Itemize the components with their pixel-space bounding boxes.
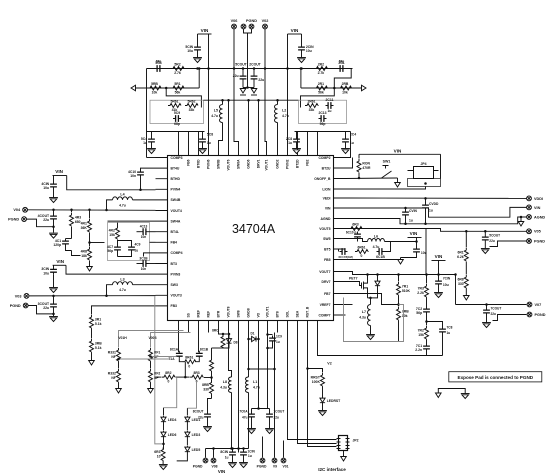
wire VOUT4 rail to terminal V04 bbox=[28, 209, 156, 212]
svg-text:VIN: VIN bbox=[56, 259, 64, 264]
capacitor 1C9 1u bbox=[268, 334, 273, 336]
svg-text:15k: 15k bbox=[418, 333, 424, 337]
wire VIN row to VIN terminal bbox=[346, 207, 527, 217]
LED 5LED4 bbox=[163, 408, 165, 415]
svg-text:L3: L3 bbox=[120, 278, 124, 282]
wire PGND pair join bbox=[244, 29, 252, 33]
arrow down FB3 divider bbox=[89, 361, 95, 366]
svg-text:1u: 1u bbox=[248, 454, 252, 458]
resistor 6R3 0 bbox=[349, 227, 362, 231]
capacitor 7COUT 22u bbox=[486, 305, 488, 308]
svg-text:2.7k: 2.7k bbox=[318, 71, 325, 75]
svg-text:SW4B: SW4B bbox=[171, 198, 181, 202]
wire comp caps row left bbox=[147, 131, 205, 133]
gray tap V008 divider mid bbox=[151, 356, 177, 358]
svg-text:15k: 15k bbox=[109, 233, 115, 237]
inductor L7 4.3u bbox=[370, 298, 372, 305]
svg-text:2C4: 2C4 bbox=[350, 133, 356, 137]
wire FB5 row bbox=[346, 259, 401, 261]
svg-text:VOUT4: VOUT4 bbox=[171, 209, 182, 213]
ground below 2CIN bbox=[297, 57, 306, 59]
wire SW4A row bbox=[108, 220, 156, 222]
svg-text:SW4A: SW4A bbox=[171, 219, 181, 223]
arrow net output right bbox=[362, 85, 367, 91]
compensation box left bbox=[150, 100, 204, 123]
svg-text:1C9: 1C9 bbox=[276, 335, 282, 339]
inductor L3 4.7u bbox=[133, 284, 156, 286]
svg-text:1u: 1u bbox=[143, 141, 147, 145]
resistor 2R2 2.7k bbox=[314, 67, 327, 71]
svg-text:4.7u: 4.7u bbox=[119, 288, 126, 292]
svg-text:D8: D8 bbox=[234, 341, 238, 345]
wire V07 rail bbox=[456, 304, 527, 306]
svg-text:PGND: PGND bbox=[246, 19, 257, 23]
svg-text:V08: V08 bbox=[211, 464, 217, 468]
resistor 8R3 0 bbox=[190, 375, 203, 379]
svg-text:1u: 1u bbox=[328, 109, 332, 113]
capacitor 2C1 68p bbox=[338, 68, 346, 70]
svg-text:VOUT6: VOUT6 bbox=[227, 159, 231, 170]
svg-text:2R2: 2R2 bbox=[318, 62, 324, 66]
svg-text:L2: L2 bbox=[282, 109, 286, 113]
terminal PGND pair top bbox=[241, 24, 246, 29]
wire JP2 ground drop bbox=[343, 451, 345, 457]
svg-text:7C8: 7C8 bbox=[447, 326, 453, 330]
svg-text:33k: 33k bbox=[189, 108, 195, 112]
svg-text:SW5: SW5 bbox=[323, 237, 330, 241]
svg-text:1u: 1u bbox=[288, 141, 292, 145]
resistor 8R61 0 bbox=[183, 360, 196, 364]
resistor RRST 100k bbox=[321, 373, 325, 386]
svg-text:1u: 1u bbox=[225, 456, 229, 460]
svg-text:SEA: SEA bbox=[296, 310, 300, 317]
terminal VDDI bbox=[527, 196, 532, 201]
diode zener D7 bbox=[377, 275, 379, 280]
svg-text:FB5: FB5 bbox=[324, 258, 331, 262]
svg-text:330: 330 bbox=[458, 282, 464, 286]
svg-text:5C8: 5C8 bbox=[207, 133, 213, 137]
svg-text:BT4L: BT4L bbox=[171, 230, 179, 234]
svg-text:SW6B: SW6B bbox=[217, 159, 221, 169]
wire bus right staircase down bbox=[334, 69, 351, 89]
LED 5LED1 bbox=[186, 408, 188, 415]
capacitor 4COUT 22u bbox=[53, 210, 55, 214]
svg-text:5COUT: 5COUT bbox=[235, 63, 247, 67]
svg-text:2RB: 2RB bbox=[342, 82, 349, 86]
wire rail B right to comp box bbox=[333, 87, 336, 90]
arrow net input left bbox=[131, 85, 136, 91]
svg-text:5C9: 5C9 bbox=[174, 111, 180, 115]
wire FB7 row to divider bbox=[346, 294, 399, 305]
gray feed wire to LED column 1 bottom bbox=[155, 296, 164, 444]
terminal AGND bbox=[527, 215, 532, 220]
svg-text:10: 10 bbox=[157, 454, 161, 458]
terminal V06 bbox=[232, 24, 237, 29]
resistor 2R61 33k bbox=[305, 104, 318, 108]
svg-text:0: 0 bbox=[188, 364, 190, 368]
svg-text:V06: V06 bbox=[231, 19, 238, 23]
svg-text:PGND: PGND bbox=[8, 218, 19, 222]
svg-text:L5: L5 bbox=[214, 109, 218, 113]
svg-text:VOUT8: VOUT8 bbox=[227, 306, 231, 317]
svg-text:I2C interface: I2C interface bbox=[318, 467, 346, 472]
resistor 8R2 0 bbox=[162, 375, 175, 379]
svg-text:V02: V02 bbox=[262, 19, 269, 23]
svg-text:L4: L4 bbox=[120, 193, 124, 197]
capacitor 7C2 56p bbox=[426, 307, 428, 315]
capacitor 7C8 1u bbox=[427, 322, 443, 327]
svg-text:VIN: VIN bbox=[55, 169, 63, 174]
svg-text:56p: 56p bbox=[416, 311, 422, 315]
svg-text:6R61: 6R61 bbox=[357, 245, 365, 249]
capacitor 5C8 1u bbox=[202, 132, 204, 137]
svg-text:56k: 56k bbox=[175, 91, 181, 95]
svg-text:FB7: FB7 bbox=[324, 292, 331, 296]
ground arrow at switch bbox=[397, 178, 399, 183]
wire VIN to PVIN4 row bbox=[67, 176, 156, 190]
svg-text:2.7k: 2.7k bbox=[174, 71, 181, 75]
svg-text:SW3: SW3 bbox=[171, 283, 178, 287]
svg-text:5R62: 5R62 bbox=[187, 99, 195, 103]
ground below 3COUT bbox=[49, 316, 58, 318]
jumper lower box bbox=[408, 179, 441, 187]
svg-text:18k: 18k bbox=[81, 254, 87, 258]
svg-text:68p: 68p bbox=[174, 122, 180, 126]
wire rail B to comp box left bbox=[165, 87, 168, 90]
wire VIN switch top rail bbox=[359, 153, 441, 155]
svg-text:L8: L8 bbox=[223, 380, 227, 384]
svg-text:AGND: AGND bbox=[534, 215, 545, 219]
gray return loop PET7 area bbox=[344, 298, 399, 342]
wire V01H feed bbox=[119, 331, 184, 348]
svg-text:V008: V008 bbox=[149, 336, 157, 340]
resistor 7R2 15k bbox=[425, 326, 429, 339]
svg-text:4.7u: 4.7u bbox=[211, 114, 218, 118]
regulator4 comp box bbox=[108, 223, 150, 261]
ground tie bracket below note bbox=[438, 389, 465, 394]
svg-text:LION: LION bbox=[322, 187, 331, 191]
terminal V05 bbox=[527, 229, 532, 234]
svg-text:6R3: 6R3 bbox=[352, 222, 358, 226]
svg-text:1u: 1u bbox=[429, 209, 433, 213]
svg-text:DRV1: DRV1 bbox=[257, 159, 261, 168]
svg-text:BT2U: BT2U bbox=[322, 166, 331, 170]
svg-text:4.7u: 4.7u bbox=[119, 203, 126, 207]
svg-text:1CIN: 1CIN bbox=[248, 450, 256, 454]
svg-text:2C13: 2C13 bbox=[318, 111, 326, 115]
terminal V08 bottom bbox=[213, 449, 215, 458]
LED 5LED6 bbox=[161, 431, 166, 439]
svg-text:VIN: VIN bbox=[435, 254, 443, 259]
svg-text:DRV7: DRV7 bbox=[322, 280, 331, 284]
wire V02 down to IC pin bbox=[265, 29, 267, 144]
svg-text:5.1k: 5.1k bbox=[95, 322, 102, 326]
svg-text:AGND: AGND bbox=[321, 217, 332, 221]
ground below 4CIN bbox=[49, 197, 58, 199]
svg-text:22u: 22u bbox=[491, 312, 497, 316]
svg-text:V01H: V01H bbox=[118, 336, 127, 340]
svg-text:1u: 1u bbox=[409, 219, 413, 223]
svg-text:10u: 10u bbox=[43, 271, 49, 275]
resistor 6R61 0 bbox=[355, 250, 368, 254]
terminal V03 bbox=[24, 294, 29, 299]
wire COMP3 feed vertical left bbox=[146, 69, 148, 158]
svg-text:1u: 1u bbox=[207, 141, 211, 145]
capacitor 5C9 68p bbox=[173, 118, 181, 120]
svg-text:120p: 120p bbox=[53, 243, 61, 247]
svg-text:10n: 10n bbox=[141, 235, 147, 239]
svg-text:2.2n: 2.2n bbox=[415, 348, 422, 352]
wire VOUT5 rail to V05 terminal bbox=[346, 229, 527, 232]
ground below 4COUT bbox=[49, 232, 58, 234]
svg-text:2COUT: 2COUT bbox=[249, 63, 261, 67]
wire SOL pin to JP2 bbox=[288, 333, 337, 440]
svg-text:4C13: 4C13 bbox=[140, 225, 148, 229]
wire RST_B pin to JP2 bbox=[308, 333, 337, 447]
diode D8 bbox=[228, 334, 230, 337]
resistor 3R1 5.1k bbox=[90, 315, 94, 328]
capacitor 2C13 56p bbox=[319, 118, 327, 120]
wire VEDI row to VDDI terminal bbox=[346, 197, 527, 199]
terminal PGND bottom mid bbox=[262, 437, 264, 458]
svg-text:V05: V05 bbox=[534, 230, 541, 234]
svg-text:10u: 10u bbox=[443, 283, 449, 287]
capacitor 4C1 120p bbox=[66, 238, 72, 240]
ground below 3CIN bbox=[49, 287, 58, 289]
capacitor 6C10 bootstrap bbox=[357, 232, 359, 240]
svg-text:56k: 56k bbox=[318, 91, 324, 95]
svg-text:VIN: VIN bbox=[218, 469, 225, 474]
capacitor 5CIN 10u bbox=[197, 45, 199, 53]
wire 4C1 bottom join) bbox=[72, 251, 81, 256]
svg-text:PGND: PGND bbox=[257, 464, 267, 468]
terminal PGND left lower bbox=[23, 303, 28, 308]
wire SW8 pin down to 8R1 chain bbox=[212, 347, 224, 349]
resistor 5R61 41k bbox=[168, 104, 181, 108]
connector JP2 bbox=[339, 436, 348, 451]
svg-text:BT3: BT3 bbox=[171, 262, 178, 266]
inductor L4 4.7u bbox=[133, 199, 156, 201]
svg-text:10u: 10u bbox=[43, 186, 49, 190]
wire VREF7 row bbox=[346, 304, 353, 306]
wire top pin drops bbox=[178, 132, 180, 144]
svg-text:Expose Pad is connected to PGN: Expose Pad is connected to PGND bbox=[458, 375, 534, 380]
capacitor CVIN 1u bbox=[405, 208, 407, 210]
svg-text:VIN: VIN bbox=[410, 231, 418, 236]
ground below LEDRST bbox=[318, 410, 327, 412]
wire FB4 row join bbox=[90, 242, 105, 244]
IC pin stubs left edge bbox=[156, 158, 168, 306]
resistor 5R1 56k bbox=[171, 86, 184, 90]
svg-text:22u: 22u bbox=[43, 218, 49, 222]
wire VIN to input cap bbox=[197, 34, 199, 45]
wire comp caps row right bbox=[295, 131, 351, 133]
wire GND8 pin down to L8 bbox=[229, 333, 232, 378]
svg-text:SOL: SOL bbox=[286, 311, 290, 318]
wire VO pin straight down bbox=[238, 333, 240, 453]
gray tap V01H divider mid bbox=[119, 358, 171, 360]
svg-text:10k: 10k bbox=[402, 314, 408, 318]
wire 7C0A 1COUT rail bbox=[252, 408, 270, 410]
capacitor 2C11 1u bbox=[326, 105, 334, 107]
svg-text:VREF7: VREF7 bbox=[320, 303, 331, 307]
svg-text:BT2D: BT2D bbox=[296, 159, 300, 168]
capacitor 2C8 1u bbox=[296, 132, 298, 137]
svg-text:10n: 10n bbox=[141, 267, 147, 271]
svg-text:IREF: IREF bbox=[197, 310, 201, 318]
svg-text:VIN: VIN bbox=[534, 206, 541, 210]
inductor L5 4.7u bbox=[222, 100, 224, 104]
earth below 5COUT bbox=[240, 89, 246, 94]
wire V008 feed bbox=[151, 333, 191, 348]
svg-text:4.3u: 4.3u bbox=[220, 385, 227, 389]
wire SEA pin to JP2 bbox=[298, 333, 337, 444]
svg-text:LED4: LED4 bbox=[168, 418, 177, 422]
svg-text:VOUT3: VOUT3 bbox=[171, 294, 182, 298]
svg-text:5RB: 5RB bbox=[151, 82, 158, 86]
resistor 2R1 56k bbox=[301, 87, 362, 89]
capacitor 4C10 bootstrap bbox=[141, 168, 156, 170]
svg-text:JP2: JP2 bbox=[353, 439, 359, 443]
svg-text:FB6: FB6 bbox=[187, 159, 191, 165]
capacitor 8CIN 1u bbox=[232, 449, 234, 451]
svg-text:22u: 22u bbox=[43, 306, 49, 310]
capacitor 6CIN 10u bbox=[416, 247, 418, 255]
svg-text:SW8: SW8 bbox=[237, 310, 241, 317]
resistor 8RC 0 bbox=[222, 334, 224, 335]
wire VOUT1b pin down bbox=[274, 333, 276, 441]
svg-text:FB4: FB4 bbox=[171, 241, 178, 245]
resistor 4R1 36k bbox=[89, 210, 91, 219]
terminal PGND left upper bbox=[22, 217, 27, 222]
resistor 7R3 2.2k bbox=[426, 275, 428, 284]
resistor 4R3 680 bbox=[71, 210, 73, 213]
resistor 7RB 10k bbox=[397, 307, 401, 320]
wire ONOFF_B rail bbox=[346, 177, 398, 180]
wire AGND row to AGND terminal bbox=[346, 217, 527, 224]
svg-text:5R1: 5R1 bbox=[174, 82, 180, 86]
ground below LED column bbox=[159, 464, 168, 466]
svg-text:6.2k: 6.2k bbox=[457, 255, 464, 259]
LED 5LED5 bbox=[185, 446, 190, 454]
wire COMP4 row bbox=[144, 253, 156, 257]
compensation box right bbox=[299, 100, 347, 123]
svg-text:4.7u: 4.7u bbox=[282, 114, 289, 118]
svg-text:22u: 22u bbox=[489, 239, 495, 243]
resistor 4R2 15k bbox=[117, 223, 119, 227]
svg-text:68p: 68p bbox=[156, 60, 162, 64]
resistor 3R8 5.1k bbox=[90, 339, 94, 352]
svg-text:L1: L1 bbox=[253, 380, 257, 384]
svg-text:8R2: 8R2 bbox=[165, 371, 171, 375]
svg-text:COMP4: COMP4 bbox=[171, 251, 183, 255]
op-amp U1 main IC 34704A body bbox=[168, 156, 334, 321]
arrow down V01H divider bbox=[116, 389, 122, 394]
inductor L6 4.7u bbox=[368, 239, 385, 242]
svg-text:V03: V03 bbox=[15, 294, 22, 298]
arrow down FB4 divider bbox=[87, 267, 93, 272]
svg-text:LED6: LED6 bbox=[168, 433, 177, 437]
wire BT5 row cluster bbox=[339, 249, 346, 252]
svg-text:RST_B: RST_B bbox=[306, 306, 310, 317]
svg-text:L7: L7 bbox=[362, 310, 366, 314]
svg-text:10k: 10k bbox=[342, 91, 348, 95]
svg-text:VIN: VIN bbox=[201, 28, 209, 33]
resistor R331 NF bbox=[117, 348, 121, 361]
svg-text:V2: V2 bbox=[327, 362, 331, 366]
svg-text:330: 330 bbox=[203, 387, 209, 391]
resistor 5R62 33k bbox=[185, 104, 198, 108]
svg-text:8C1A: 8C1A bbox=[170, 348, 179, 352]
svg-text:10k: 10k bbox=[152, 91, 158, 95]
IC pin stubs bottom edge bbox=[179, 321, 318, 333]
capacitor 7C1 2.2n bbox=[426, 344, 428, 352]
svg-text:VOUT1: VOUT1 bbox=[265, 159, 269, 170]
capacitor CVDD 1u bbox=[424, 197, 427, 200]
svg-text:LED3: LED3 bbox=[192, 433, 201, 437]
svg-text:1COUT: 1COUT bbox=[274, 410, 285, 414]
terminal V01 bottom bbox=[283, 441, 285, 458]
resistor R332 NF bbox=[117, 369, 121, 382]
wire V06 down to IC pin bbox=[234, 29, 239, 144]
resistor 4R8 18k bbox=[89, 243, 91, 247]
svg-text:SW1: SW1 bbox=[383, 160, 391, 164]
wire VOUT3 rail to terminal V03 bbox=[29, 295, 156, 297]
svg-text:36K: 36K bbox=[81, 226, 88, 230]
svg-text:0: 0 bbox=[167, 380, 169, 384]
resistor 6R1 6.2k bbox=[465, 231, 467, 247]
resistor 5RB 10k bbox=[148, 86, 161, 90]
wire VIN left drop to pins bbox=[208, 34, 210, 144]
resistor RON 470R bbox=[358, 154, 360, 158]
svg-text:1u: 1u bbox=[276, 340, 280, 344]
svg-text:34704A: 34704A bbox=[232, 222, 276, 236]
svg-text:470R: 470R bbox=[362, 166, 371, 170]
svg-text:VIN: VIN bbox=[394, 149, 402, 154]
IC pin stubs right edge bbox=[334, 158, 346, 316]
wire mid rail VOUT bbox=[204, 99, 299, 101]
svg-text:COMP3: COMP3 bbox=[171, 156, 183, 160]
svg-text:PGND: PGND bbox=[534, 239, 545, 243]
svg-text:6C10: 6C10 bbox=[346, 231, 354, 235]
svg-text:7CIN: 7CIN bbox=[443, 277, 451, 281]
svg-text:NF: NF bbox=[111, 376, 116, 380]
LED 5LED3 bbox=[185, 431, 190, 439]
svg-text:2C11: 2C11 bbox=[326, 98, 334, 102]
wire L6 right to VIN cap bbox=[385, 242, 417, 247]
svg-text:4.3u: 4.3u bbox=[359, 316, 366, 320]
inductor L8 4.3u bbox=[229, 377, 232, 393]
wire cluster to L6 right bbox=[385, 242, 391, 252]
terminal PGND right lower bbox=[527, 312, 532, 317]
terminal V04 bbox=[23, 207, 28, 212]
svg-text:BT8: BT8 bbox=[276, 311, 280, 317]
wire BTR pin to 8RC diode pair bbox=[219, 333, 230, 335]
svg-text:2.2k: 2.2k bbox=[417, 291, 424, 295]
svg-text:5COUT: 5COUT bbox=[489, 234, 500, 238]
svg-text:PVIN3: PVIN3 bbox=[171, 272, 181, 276]
terminal PGND bottom left bbox=[205, 449, 207, 458]
wire VIN to input cap right bbox=[301, 34, 303, 45]
svg-text:BT5: BT5 bbox=[324, 247, 331, 251]
svg-text:VOUT1: VOUT1 bbox=[266, 306, 270, 317]
LED LEDRST bbox=[320, 397, 325, 405]
capacitor 3COUT 22u bbox=[53, 296, 55, 302]
svg-text:22u: 22u bbox=[233, 74, 239, 78]
gray feed wire to LED column 1 top bbox=[164, 377, 177, 408]
svg-text:D1: D1 bbox=[250, 331, 254, 335]
capacitor 1CIN 1u bbox=[243, 449, 245, 451]
